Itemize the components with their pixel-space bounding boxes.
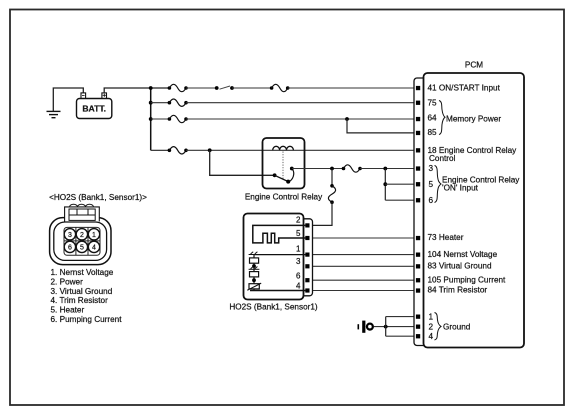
relay switch contacts (273, 167, 294, 184)
wire battery positive to bus (104, 88, 169, 93)
fuse F2 (row 1) (270, 84, 290, 91)
PCM box (424, 73, 525, 348)
svg-text:1. Nernst Voltage: 1. Nernst Voltage (51, 268, 114, 277)
electrode 2 (249, 267, 260, 270)
battery BATT. (77, 93, 112, 119)
svg-text:HO2S (Bank1, Sensor1): HO2S (Bank1, Sensor1) (229, 303, 318, 312)
svg-text:Ground: Ground (443, 323, 471, 332)
svg-text:2: 2 (296, 216, 301, 225)
svg-text:6: 6 (296, 271, 301, 280)
svg-text:3: 3 (68, 232, 72, 239)
node bus-row2 (149, 101, 153, 105)
relay K1 box (263, 138, 305, 189)
svg-text:4: 4 (296, 282, 301, 291)
connector blob outer (50, 218, 111, 265)
svg-text:4: 4 (429, 332, 434, 341)
wire down from relay branch to HO2S pin 2 (331, 169, 333, 186)
svg-text:PCM: PCM (465, 61, 483, 70)
HO2S pin squares (305, 223, 309, 292)
wire row3 bus to fuse (151, 118, 170, 120)
wire ground to PCM (374, 326, 416, 328)
wire HO2S pin4 to PCM 84 (310, 290, 417, 292)
relay armature dashed link (282, 152, 284, 180)
brace memory power (439, 101, 445, 135)
svg-text:75: 75 (428, 99, 438, 108)
wire to PCM pin 4 (386, 335, 416, 337)
wire row1 fuse to switch (186, 87, 217, 89)
PCM pin labels (428, 83, 521, 341)
fuse F1 (row 1) (168, 84, 188, 91)
wire row1 to PCM pin 41 (288, 87, 416, 89)
HO2S sensor box (244, 214, 304, 300)
svg-text:5. Heater: 5. Heater (51, 306, 85, 315)
node pin5 (383, 182, 387, 186)
electrode 1 (249, 252, 260, 255)
brace ON input (435, 166, 442, 203)
connector cavity circles (64, 229, 100, 253)
svg-text:41 ON/START Input: 41 ON/START Input (428, 83, 501, 92)
svg-text:4. Trim Resistor: 4. Trim Resistor (51, 296, 109, 305)
svg-text:Engine Control Relay: Engine Control Relay (245, 192, 323, 201)
wire relay output to PCM pin 3 (292, 168, 344, 170)
node row4 branch (208, 148, 212, 152)
svg-text:6. Pumping Current: 6. Pumping Current (51, 315, 123, 324)
svg-text:4: 4 (92, 244, 96, 251)
wire row3 to PCM pin 64 (186, 118, 416, 120)
svg-text:3. Virtual Ground: 3. Virtual Ground (51, 287, 113, 296)
svg-text:3: 3 (296, 257, 301, 266)
body ground symbol (358, 321, 373, 333)
cavity numbers (68, 232, 96, 252)
fuse F7 (vertical) (328, 184, 335, 204)
svg-text:85: 85 (428, 128, 438, 137)
fuse F3 (row 2) (168, 99, 188, 106)
PCM pin squares (416, 86, 420, 339)
fuse F5 (row 4) (168, 147, 188, 154)
svg-text:2: 2 (429, 322, 434, 331)
node cell1/pin3 (252, 264, 256, 268)
fuse F4 (row 3) (168, 115, 188, 122)
HO2S pin numbers (296, 216, 301, 291)
wire HO2S pin6 to PCM 105 (310, 279, 417, 281)
wire row4 to relay coil and PCM pin 18 (186, 149, 416, 151)
connector pin grid (64, 227, 100, 255)
svg-text:<HO2S (Bank1, Sensor1)>: <HO2S (Bank1, Sensor1)> (49, 193, 147, 202)
connector inner contour (54, 222, 107, 260)
connector tab (65, 204, 100, 221)
wire HO2S pin3 to PCM 83 (310, 265, 417, 267)
wire row1 switch to fuse2 (232, 87, 272, 89)
node relay-out branch (330, 167, 334, 171)
wire row2 to PCM pin 75 (186, 102, 416, 104)
svg-text:1: 1 (429, 312, 434, 321)
ignition switch (215, 86, 234, 90)
bus vertical wire (150, 88, 152, 150)
wire row4 bus corner to fuse (151, 149, 170, 151)
node cell2/pin6 (252, 278, 256, 282)
svg-text:5: 5 (296, 229, 301, 238)
wire row2 bus to fuse (151, 102, 170, 104)
svg-text:1: 1 (296, 244, 301, 253)
sensor cell chain wire (253, 255, 255, 291)
pump cell 3 (249, 284, 259, 289)
ground (battery negative earth) (47, 111, 61, 117)
node pin5/6 branch (383, 167, 387, 171)
HO2S sensor connector strip (296, 219, 313, 296)
wire to PCM pin 3 (360, 168, 416, 170)
pump cell slash (247, 283, 261, 290)
PCM connector strip (414, 78, 429, 346)
svg-text:6: 6 (68, 244, 72, 251)
wire branch down to relay switch (210, 150, 275, 175)
svg-text:BATT.: BATT. (82, 104, 106, 114)
svg-text:104 Nernst Voltage: 104 Nernst Voltage (428, 250, 498, 259)
legend pin functions (51, 268, 123, 324)
heater element (253, 225, 306, 243)
wire branch down to pins 5 and 6 (384, 169, 386, 201)
svg-text:Memory Power: Memory Power (446, 114, 501, 123)
svg-text:2: 2 (80, 232, 84, 239)
wire battery negative to ground (53, 88, 83, 111)
wire to PCM pin 1 (386, 316, 416, 318)
wire fuse to HO2S pin 2 (310, 202, 333, 225)
svg-text:64: 64 (428, 114, 438, 123)
node row3 branch (345, 117, 349, 121)
wire branch to PCM pin 85 (347, 119, 416, 133)
svg-text:73 Heater: 73 Heater (428, 233, 464, 242)
brace ground (435, 313, 442, 341)
wire HO2S pin5 to PCM 73 (310, 237, 417, 239)
node bus-row3 (149, 117, 153, 121)
fuse F6 (horizontal, pin3 line) (342, 165, 362, 172)
cell 2 (250, 272, 259, 277)
svg-text:5: 5 (429, 180, 434, 189)
wire pin1 into cell (254, 254, 306, 256)
relay coil (273, 146, 294, 150)
node ground branch (384, 325, 388, 329)
wire to PCM pin 6 (385, 199, 416, 201)
svg-text:83 Virtual Ground: 83 Virtual Ground (428, 262, 492, 271)
svg-text:'ON' Input: 'ON' Input (442, 184, 479, 193)
svg-text:3: 3 (429, 164, 434, 173)
svg-text:6: 6 (429, 196, 434, 205)
wire HO2S pin1 to PCM 104 (310, 254, 417, 256)
svg-text:1: 1 (92, 232, 96, 239)
svg-text:2. Power: 2. Power (51, 277, 84, 286)
node bus-row1 (149, 86, 153, 90)
ground branch bus (385, 317, 387, 337)
svg-text:84 Trim Resistor: 84 Trim Resistor (428, 285, 488, 294)
cell 1 (250, 258, 259, 263)
svg-text:105 Pumping Current: 105 Pumping Current (428, 275, 507, 284)
wire to PCM pin 5 (385, 183, 416, 185)
svg-text:Control: Control (429, 154, 456, 163)
wire cell to pin4 (250, 290, 306, 292)
svg-text:5: 5 (80, 244, 84, 251)
